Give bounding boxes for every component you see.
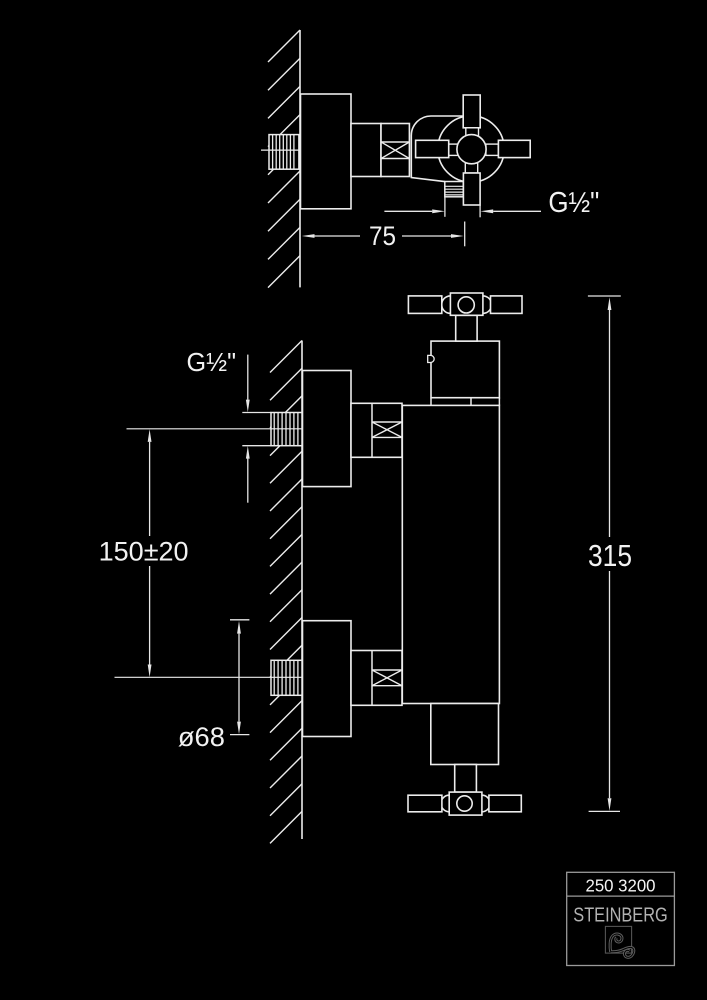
handle spoke down (top view) [465, 163, 477, 173]
dimension 150 +/- 20 [148, 429, 152, 442]
lower handle left prong [408, 795, 442, 812]
inlet centerline (top view) [261, 149, 317, 151]
upper handle block [450, 293, 483, 315]
wall hatching (side view) [270, 341, 302, 373]
upper handle left prong [408, 296, 441, 314]
svg-text:250 3200: 250 3200 [586, 876, 656, 896]
upper handle right prong [491, 296, 523, 314]
svg-text:G½": G½" [187, 349, 237, 377]
svg-text:STEINBERG: STEINBERG [573, 905, 667, 927]
svg-text:G½": G½" [548, 187, 599, 219]
connection sleeve (top view) [351, 124, 381, 177]
svg-text:ø68: ø68 [178, 722, 225, 752]
upper handle right neck arc [483, 296, 492, 314]
upper connection + cartridge (side view) [351, 403, 402, 457]
handle spoke left (top view) [449, 144, 459, 155]
lower connection + cartridge (side view) [351, 651, 402, 706]
svg-text:150±20: 150±20 [99, 536, 189, 566]
label G1/2 inch (side view) [247, 355, 249, 400]
lower handle right neck arc [482, 795, 490, 812]
svg-text:75: 75 [369, 221, 396, 251]
lower bonnet (side view) [431, 704, 499, 765]
valve cartridge symbol (top view) [381, 124, 409, 177]
dimension diameter 68 [230, 619, 249, 621]
lower handle hub [457, 796, 472, 811]
lower stem [455, 765, 477, 793]
dimension 315 [588, 295, 621, 297]
label G1/2 inch (top view) [384, 210, 432, 212]
steinberg wave logo [605, 926, 631, 953]
upper inlet thread (side view) [271, 413, 302, 446]
temperature stop detail [428, 355, 434, 362]
main valve body (side view) [402, 405, 499, 703]
wall section face (top view) [299, 30, 301, 287]
wall flange / escutcheon (top view) [301, 94, 352, 209]
upper handle hub [458, 297, 474, 313]
lower handle block [449, 792, 482, 815]
wall hatching (top view) [268, 30, 300, 62]
upper escutcheon (side view) [303, 371, 352, 487]
outlet thread G1/2 (top view) [445, 182, 464, 197]
handle flange circle (top view) [438, 116, 504, 182]
lower inlet centerline [115, 676, 367, 678]
svg-text:315: 315 [588, 538, 632, 573]
lower inlet thread (side view) [271, 660, 302, 695]
lower handle right prong [489, 795, 521, 812]
handle spoke right (top view) [486, 144, 499, 155]
upper bonnet (side view) [431, 341, 499, 398]
handle spoke up (top view) [463, 95, 480, 128]
upper stem [456, 315, 477, 341]
handle hub (top view) [457, 135, 486, 164]
inlet pipe thread G1/2 (top view) [269, 135, 299, 170]
lower handle left neck arc [441, 795, 449, 812]
title box [567, 872, 675, 965]
valve body (top view) [411, 116, 464, 182]
dimension 75 [314, 235, 360, 237]
lower escutcheon (side view) [303, 621, 352, 737]
upper handle left neck arc [442, 296, 451, 314]
wall section face (side view) [301, 341, 303, 840]
upper inlet centerline [127, 428, 367, 430]
